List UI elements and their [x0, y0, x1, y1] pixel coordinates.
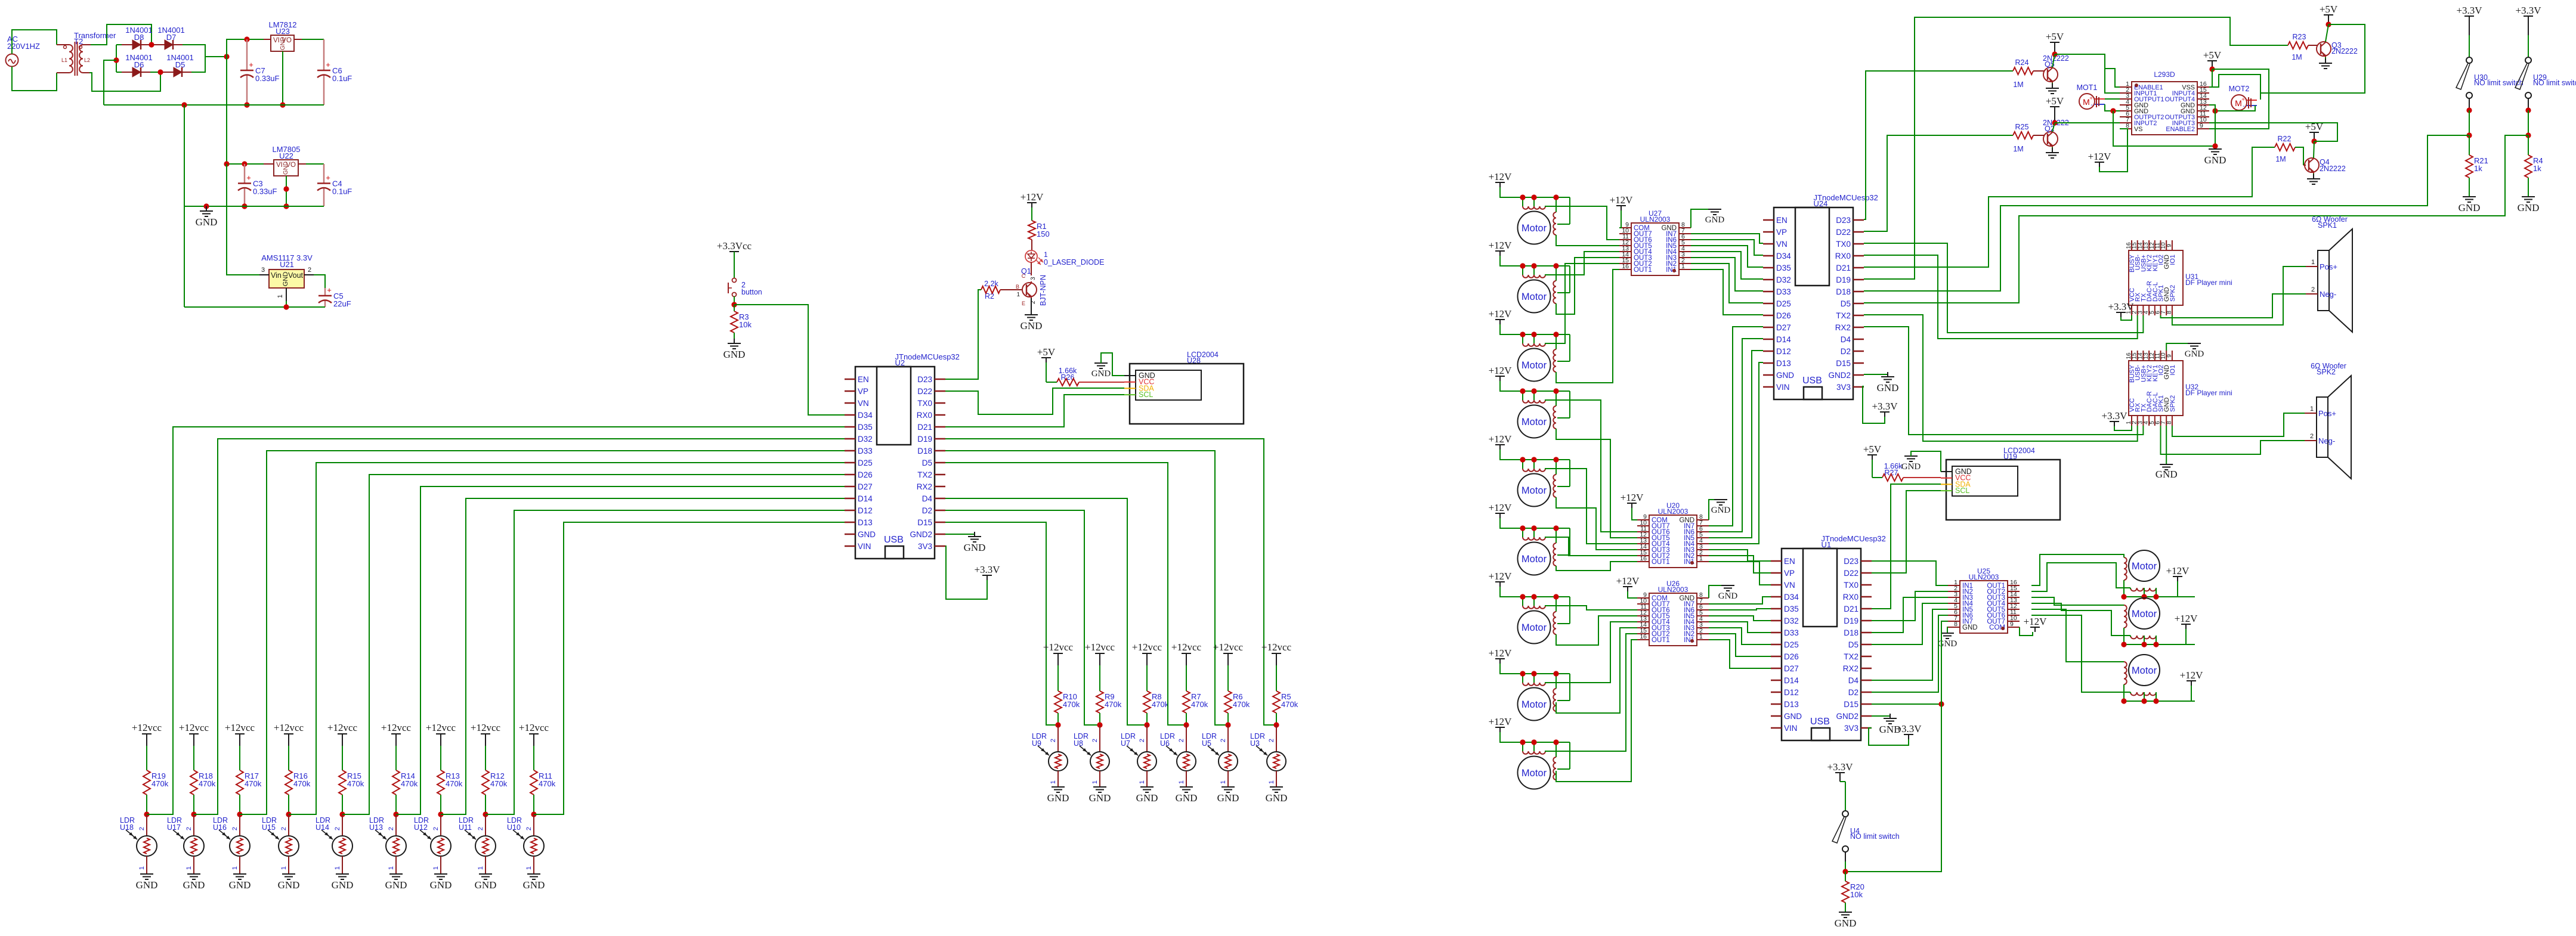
- svg-text:+12V: +12V: [1489, 647, 1513, 659]
- ULN2003 U27: [1619, 209, 1691, 275]
- node R8/U7: [1144, 722, 1149, 727]
- wire +5V to ENABLE2: [2209, 69, 2269, 129]
- resistor R16 470k: [285, 770, 292, 795]
- wire +12vcc to R13: [440, 746, 441, 770]
- svg-text:1: 1: [525, 866, 533, 870]
- svg-text:+12V: +12V: [1616, 575, 1640, 587]
- LDR U7 pin1 stub: [1146, 771, 1148, 787]
- svg-text:1: 1: [1699, 633, 1703, 640]
- svg-text:GND: GND: [1776, 371, 1794, 380]
- svg-text:470k: 470k: [1233, 700, 1250, 709]
- svg-text:+12vcc: +12vcc: [519, 722, 549, 733]
- svg-text:9: 9: [2166, 244, 2173, 247]
- wire +12V to R1: [1031, 207, 1032, 221]
- svg-text:22uF: 22uF: [333, 299, 351, 308]
- wire motor3 phase B to U27 OUT1: [1556, 269, 1619, 383]
- svg-text:D7: D7: [166, 33, 177, 42]
- svg-text:ULN2003: ULN2003: [1640, 215, 1671, 224]
- svg-text:470k: 470k: [1063, 700, 1080, 709]
- ground bus of 5V stage: [184, 206, 324, 207]
- photoresistor LDR U9: [1032, 732, 1068, 771]
- wire U1 D22 to LCD U19 SCL: [1872, 491, 1941, 573]
- wire R19 to node: [146, 795, 147, 814]
- svg-text:D25: D25: [1776, 299, 1791, 308]
- svg-text:+5V: +5V: [1037, 346, 1056, 358]
- svg-text:16: 16: [1640, 633, 1647, 640]
- svg-text:VS: VS: [2134, 126, 2142, 133]
- wire R9 to node: [1099, 713, 1100, 725]
- svg-text:2: 2: [525, 827, 533, 830]
- wire +12vcc to R11: [533, 746, 534, 770]
- svg-text:D35: D35: [858, 423, 873, 432]
- stepper motor M1 with +12V rail: [1489, 171, 1570, 244]
- wire U25 OUT2 to motor10 coil: [2031, 563, 2130, 591]
- svg-text:+12vcc: +12vcc: [1213, 641, 1244, 653]
- wire +12vcc to R8: [1146, 665, 1148, 691]
- svg-text:Motor: Motor: [1522, 699, 1547, 710]
- svg-text:-: -: [2243, 103, 2244, 110]
- svg-text:470k: 470k: [446, 779, 463, 788]
- wire to button: [734, 252, 735, 278]
- svg-text:SPK2: SPK2: [2169, 395, 2176, 412]
- resistor R13 470k: [437, 770, 444, 795]
- svg-text:EN: EN: [858, 375, 869, 384]
- ground under U3: [1270, 787, 1283, 792]
- LDR U3 pin1 stub: [1276, 771, 1277, 787]
- resistor R20 10k: [1845, 872, 1846, 881]
- ground under U11: [479, 874, 492, 879]
- svg-text:GND: GND: [136, 879, 158, 891]
- svg-text:2: 2: [1268, 739, 1275, 742]
- svg-text:RX2: RX2: [1843, 664, 1858, 673]
- wire ESP1 GND2 to ground: [945, 534, 975, 535]
- svg-text:1: 1: [277, 295, 284, 298]
- svg-text:1k: 1k: [2474, 164, 2482, 173]
- ESP32 module U24: [1763, 193, 1878, 399]
- svg-text:150: 150: [1037, 230, 1050, 238]
- svg-text:3V3: 3V3: [1844, 724, 1858, 733]
- wire U25 OUT5 to motor12: [2031, 609, 2124, 662]
- wire U26 IN6 to U1 D35: [1709, 609, 1771, 610]
- resistor R11 470k: [530, 770, 537, 795]
- node U29/R4: [2525, 132, 2531, 138]
- LDR U12 pin1 stub: [440, 856, 441, 874]
- svg-text:1M: 1M: [2292, 53, 2302, 61]
- svg-text:Motor: Motor: [2132, 665, 2157, 676]
- ULN2003 U20: [1637, 501, 1709, 568]
- wire +12vcc to R5: [1276, 665, 1277, 691]
- diode D6 1N4001: [116, 72, 122, 73]
- resistor R8 470k: [1143, 691, 1151, 713]
- svg-text:D2: D2: [1841, 347, 1851, 356]
- LDR U16 pin1 stub: [239, 856, 240, 874]
- svg-text:+: +: [326, 60, 330, 69]
- wire motor9 phase A to U26 OUT2: [1545, 634, 1637, 751]
- wire U32 GND to ground: [2166, 426, 2167, 464]
- wire +12vcc to R12: [485, 746, 486, 770]
- svg-text:U9: U9: [1032, 739, 1041, 748]
- svg-text:Vout: Vout: [288, 271, 304, 280]
- photoresistor LDR U12: [414, 816, 451, 856]
- svg-text:+12V: +12V: [1621, 492, 1644, 503]
- svg-text:NO limit switch: NO limit switch: [2533, 79, 2576, 87]
- svg-text:GND: GND: [1136, 792, 1158, 804]
- wire R16 to node: [288, 795, 289, 814]
- svg-text:+5V: +5V: [2046, 95, 2064, 107]
- bottom ground return wire: [184, 306, 325, 308]
- svg-text:VIN: VIN: [1776, 383, 1790, 392]
- svg-text:2: 2: [388, 827, 395, 830]
- svg-text:U8: U8: [1074, 739, 1083, 748]
- svg-text:+3.3V: +3.3V: [2515, 5, 2541, 16]
- wire secondary top to bridge mid (over): [91, 24, 151, 45]
- ground flag at U25 GND: [1947, 627, 1948, 633]
- svg-text:2: 2: [1050, 739, 1057, 742]
- svg-text:+: +: [249, 60, 253, 69]
- svg-text:D27: D27: [858, 482, 873, 491]
- ground under U6: [1180, 787, 1193, 792]
- svg-text:2.2k: 2.2k: [984, 280, 998, 288]
- wire R13 to node: [440, 795, 441, 814]
- svg-text:MOT2: MOT2: [2229, 85, 2250, 93]
- svg-text:1: 1: [1699, 555, 1703, 562]
- svg-text:1: 1: [1044, 250, 1048, 259]
- svg-text:GND: GND: [523, 879, 545, 891]
- svg-text:2: 2: [477, 827, 484, 830]
- svg-text:+12V: +12V: [1020, 191, 1044, 203]
- resistor R5 470k: [1273, 691, 1280, 713]
- svg-text:U12: U12: [414, 823, 428, 832]
- wire U4 to node: [1845, 852, 1846, 861]
- svg-text:GND: GND: [1877, 382, 1899, 393]
- svg-text:2: 2: [185, 827, 193, 830]
- svg-text:TX2: TX2: [1836, 311, 1851, 320]
- wire motor5 phase B to U20 OUT3: [1556, 497, 1637, 550]
- wire U1 D21 to LCD U19 SDA: [1872, 484, 1941, 609]
- svg-text:+3.3V: +3.3V: [2108, 301, 2134, 312]
- wire motor6 phase A to U20 OUT2: [1545, 537, 1637, 556]
- ground under U16: [233, 874, 246, 879]
- svg-text:+: +: [327, 286, 332, 295]
- LDR U17 pin1 stub: [193, 856, 194, 874]
- svg-text:VI: VI: [273, 37, 280, 44]
- svg-text:Motor: Motor: [1522, 485, 1547, 496]
- wire +12vcc to R14: [395, 746, 397, 770]
- svg-text:DF Player mini: DF Player mini: [2185, 278, 2232, 287]
- wire U27 IN3 to U24 D33: [1691, 258, 1763, 291]
- wire U20 IN1 to U1 VN: [1709, 562, 1771, 585]
- wire U27 IN2 to U24 D25: [1691, 264, 1763, 303]
- svg-text:MOT1: MOT1: [2077, 83, 2098, 92]
- svg-text:D15: D15: [1836, 359, 1851, 368]
- ground under U10: [527, 874, 540, 879]
- svg-text:2: 2: [1178, 739, 1185, 742]
- wire U24 3V3 to +3.3V flag: [1863, 386, 1885, 423]
- photoresistor LDR U8: [1074, 732, 1109, 771]
- svg-text:1: 1: [231, 866, 239, 870]
- svg-text:GND: GND: [278, 879, 300, 891]
- wire Q3 node to INPUT4 loop: [2260, 24, 2365, 93]
- svg-text:VP: VP: [1776, 228, 1787, 237]
- photoresistor LDR U7: [1121, 732, 1156, 771]
- svg-text:GND: GND: [282, 272, 289, 287]
- wire Q2 node to L293D INPUT2: [2055, 122, 2120, 123]
- svg-text:2N2222: 2N2222: [2320, 165, 2346, 173]
- svg-text:GND: GND: [2518, 202, 2540, 213]
- ground under R21: [2463, 197, 2476, 202]
- wire ESP1 D4 to node R8: [945, 498, 1147, 725]
- LDR U17 pin2 stub: [193, 814, 194, 835]
- wire R22 to Q4 base: [2295, 147, 2303, 165]
- node AC1 junction: [149, 42, 154, 47]
- svg-text:1: 1: [1220, 780, 1227, 784]
- wire D7 cathode to DC+ rail: [183, 45, 205, 57]
- LDR U11 pin1 stub: [485, 856, 486, 874]
- svg-text:Neg-: Neg-: [2320, 290, 2336, 299]
- svg-text:+5V: +5V: [1863, 444, 1882, 455]
- svg-text:16: 16: [1640, 555, 1647, 562]
- ground under Q2: [2052, 147, 2053, 153]
- svg-text:NO limit switch: NO limit switch: [1850, 832, 1900, 841]
- ground under U5: [1221, 787, 1235, 792]
- svg-text:470k: 470k: [245, 779, 262, 788]
- wire U1 D5 to U25 IN4: [1872, 603, 1948, 644]
- svg-text:ULN2003: ULN2003: [1658, 585, 1689, 594]
- svg-text:3: 3: [1030, 277, 1037, 280]
- stepper motor M5 with +12V rail: [1489, 433, 1570, 507]
- svg-text:button: button: [741, 288, 762, 296]
- node R16/U15: [286, 811, 291, 817]
- svg-text:Motor: Motor: [1522, 417, 1547, 427]
- svg-text:+12V: +12V: [2166, 565, 2190, 577]
- wire motor4 phase B to U20 OUT5: [1556, 429, 1637, 538]
- wire node to ESP1 D26: [342, 475, 845, 814]
- wire node to ESP1 D13: [534, 522, 845, 814]
- limit switch U4: [1832, 811, 1900, 852]
- node R9/U8: [1097, 722, 1102, 727]
- diode D5 1N4001: [163, 72, 174, 73]
- resistor R10 470k: [1054, 691, 1062, 713]
- LCD2004 U19: [1941, 447, 2060, 520]
- wire U24 D19 to R23: [1864, 17, 2288, 279]
- resistor R19 470k: [143, 770, 150, 795]
- wire ESP1 D19 to node R5: [945, 439, 1276, 725]
- svg-text:470k: 470k: [1105, 700, 1122, 709]
- resistor R18 470k: [190, 770, 197, 795]
- svg-text:D13: D13: [1784, 700, 1799, 709]
- svg-text:D22: D22: [917, 387, 932, 396]
- wire ESP1 3V3 to +3.3V flag: [945, 546, 987, 599]
- stepper motor M3 with +12V rail: [1489, 308, 1570, 382]
- svg-text:GND: GND: [430, 879, 452, 891]
- wire ESP1 D18 to node R6: [945, 451, 1228, 725]
- svg-text:U3: U3: [1250, 739, 1260, 748]
- svg-text:Motor: Motor: [2132, 609, 2157, 619]
- LDR U11 pin2 stub: [485, 814, 486, 835]
- svg-text:TX2: TX2: [917, 470, 932, 479]
- svg-text:D4: D4: [1841, 335, 1851, 344]
- LDR U13 pin1 stub: [395, 856, 397, 874]
- wire motor2 phase B to U27 OUT3: [1556, 258, 1619, 314]
- svg-text:+12V: +12V: [1489, 502, 1513, 513]
- svg-text:B: B: [1016, 284, 1019, 290]
- stepper motor M11 with +12V rail: [2121, 598, 2195, 647]
- svg-text:GND: GND: [280, 37, 286, 50]
- wire U21 out to C5: [314, 275, 325, 288]
- wire U24 D23 to R24: [1864, 71, 2013, 219]
- svg-text:8: 8: [1954, 621, 1957, 628]
- svg-text:+5V: +5V: [2046, 31, 2064, 42]
- LDR U10 pin2 stub: [533, 814, 534, 835]
- svg-text:D21: D21: [1836, 264, 1851, 272]
- node Q2 collector: [2052, 120, 2057, 125]
- svg-text:RX0: RX0: [917, 411, 932, 420]
- svg-text:U18: U18: [120, 823, 134, 832]
- wire U27 IN7 to U24 VN: [1691, 234, 1763, 243]
- wire button node to ESP1 D34: [734, 305, 845, 415]
- svg-text:USB: USB: [884, 535, 904, 545]
- svg-text:1: 1: [1139, 780, 1146, 784]
- resistor R9 470k: [1096, 691, 1103, 713]
- resistor R15 470k: [339, 770, 346, 795]
- wire motor7 phase B to U26 OUT5: [1556, 616, 1637, 645]
- node R10/U9: [1055, 722, 1060, 727]
- capacitor C5 22uF: [324, 288, 326, 296]
- svg-text:D14: D14: [1776, 335, 1791, 344]
- svg-text:BJT-NPN: BJT-NPN: [1039, 275, 1047, 306]
- svg-text:1: 1: [185, 866, 193, 870]
- node U4/R20: [1842, 869, 1848, 874]
- bridge left rail (DC-): [116, 45, 117, 72]
- wire MOT1 + to OUTPUT1: [2105, 98, 2120, 100]
- svg-text:1: 1: [1681, 263, 1685, 270]
- wire U1 D2 to U25 IN6: [1872, 615, 1948, 692]
- LDR U15 pin1 stub: [288, 856, 289, 874]
- svg-text:D26: D26: [1784, 652, 1799, 661]
- wire U1 D23 to U25 IN1: [1872, 561, 1948, 585]
- LDR U16 pin2 stub: [239, 814, 240, 835]
- LDR U6 pin2 stub: [1186, 725, 1187, 752]
- wire motor1 phase B to U27 OUT5: [1556, 235, 1619, 246]
- svg-text:+12V: +12V: [1489, 571, 1513, 582]
- svg-text:D2: D2: [922, 506, 932, 515]
- wire motor1 phase A to U27 OUT6: [1545, 206, 1619, 240]
- diode D7 1N4001: [154, 44, 165, 45]
- wire R17 to node: [239, 795, 240, 814]
- svg-text:1: 1: [388, 866, 395, 870]
- wire U27 IN6 to U24 D34: [1691, 240, 1763, 255]
- stepper motor M12 with +12V rail: [2121, 655, 2195, 704]
- wire U32 SPK2 to SPK2 Pos: [2172, 413, 2305, 436]
- wire secondary bottom to bridge mid: [89, 72, 160, 91]
- svg-text:GND: GND: [385, 879, 407, 891]
- svg-text:GND: GND: [283, 162, 289, 175]
- svg-text:470k: 470k: [539, 779, 556, 788]
- wire U26 IN4 to U1 D33: [1709, 622, 1771, 633]
- svg-text:D12: D12: [1784, 688, 1799, 697]
- DF Player mini U32: [2126, 351, 2232, 426]
- wire U24 GND2 to ground: [1864, 374, 1888, 375]
- node R12/U11: [483, 811, 488, 817]
- ESP32 module U2: [845, 352, 960, 559]
- wire U24 RX0 to U31 RX: [1864, 255, 2138, 339]
- node R7/U6: [1183, 722, 1189, 727]
- svg-text:+12V: +12V: [2088, 151, 2112, 162]
- svg-text:GND: GND: [2459, 202, 2481, 213]
- svg-text:+12V: +12V: [1610, 194, 1634, 206]
- wire R18 to node: [193, 795, 194, 814]
- LDR U15 pin2 stub: [288, 814, 289, 835]
- wire motor8 phase B to U26 OUT3: [1556, 628, 1637, 713]
- svg-text:D26: D26: [1776, 311, 1791, 320]
- wire +12vcc to R19: [146, 746, 147, 770]
- svg-text:D26: D26: [858, 470, 873, 479]
- svg-text:D18: D18: [917, 447, 932, 455]
- wire ESP1 D15 to node R10: [945, 522, 1058, 725]
- wire DC- to ground bus: [104, 60, 116, 105]
- svg-text:EN: EN: [1784, 557, 1795, 566]
- wire +3.3V to U30: [2469, 21, 2470, 35]
- wire ESP1 D2 to node R9: [945, 510, 1100, 725]
- svg-text:2N2222: 2N2222: [2331, 47, 2358, 55]
- svg-text:+3.3V: +3.3V: [1827, 761, 1853, 773]
- photoresistor LDR U10: [507, 816, 544, 856]
- DC motor MOT2: [2229, 85, 2257, 110]
- svg-text:OUT1: OUT1: [1652, 559, 1670, 566]
- transformer T2: [57, 31, 116, 76]
- svg-text:U16: U16: [213, 823, 227, 832]
- wire U26 IN2 to U1 D26: [1709, 634, 1771, 656]
- svg-text:D35: D35: [1776, 264, 1791, 272]
- wire U25 OUT6 to motor12 coil: [2031, 615, 2130, 692]
- svg-text:0.33uF: 0.33uF: [253, 187, 277, 196]
- svg-text:1M: 1M: [2275, 155, 2286, 163]
- wire +12vcc to R6: [1227, 665, 1229, 691]
- svg-text:+12V: +12V: [1489, 171, 1513, 182]
- svg-text:GND2: GND2: [1828, 371, 1851, 380]
- svg-text:U11: U11: [459, 823, 472, 832]
- svg-text:D5: D5: [175, 60, 185, 69]
- svg-text:VIN: VIN: [1784, 724, 1798, 733]
- svg-text:D22: D22: [1836, 228, 1851, 237]
- ground flag at U20 pin8: [1709, 500, 1721, 520]
- wire +5V node to L293D ENABLE1/INPUT1: [2055, 54, 2120, 93]
- wire motor2 phase A to U27 OUT4: [1545, 252, 1619, 275]
- svg-text:GND: GND: [1020, 320, 1043, 331]
- regulator U23 LM7812: [264, 20, 302, 51]
- laser diode 0_LASER_DIODE: [1025, 250, 1104, 266]
- svg-text:470k: 470k: [1191, 700, 1208, 709]
- svg-text:D33: D33: [858, 447, 873, 455]
- svg-text:+12vcc: +12vcc: [1043, 641, 1074, 653]
- svg-text:+: +: [326, 173, 330, 182]
- transistor Q4 2N2222: [2305, 157, 2346, 173]
- svg-text:2: 2: [432, 827, 440, 830]
- svg-text:VN: VN: [1784, 581, 1795, 590]
- wire AC to transformer primary: [12, 30, 57, 54]
- photoresistor LDR U15: [262, 816, 299, 856]
- svg-text:D32: D32: [1784, 616, 1799, 625]
- LDR U12 pin2 stub: [440, 814, 441, 835]
- svg-text:+: +: [2241, 97, 2245, 103]
- svg-text:R25: R25: [2015, 123, 2029, 131]
- resistor R14 470k: [392, 770, 400, 795]
- svg-text:D15: D15: [1844, 700, 1858, 709]
- svg-text:DF Player mini: DF Player mini: [2185, 389, 2232, 397]
- svg-text:1M: 1M: [2013, 145, 2023, 153]
- resistor R1 150: [1028, 221, 1035, 240]
- wire R6 to node: [1227, 713, 1229, 725]
